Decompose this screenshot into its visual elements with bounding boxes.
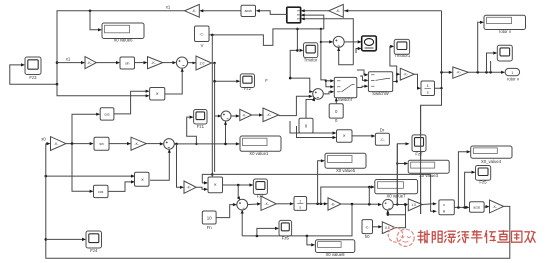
acos block2 (470, 202, 485, 212)
wire acos2 to gain G14 (484, 205, 489, 208)
svg-text:SwitchT: SwitchT (338, 97, 354, 102)
wire branch down vertical B x=215.2 (213, 63, 221, 172)
wire G9 out to sin2 with branch x=72 (66, 142, 94, 145)
svg-text:acos: acos (245, 9, 252, 13)
wire X1 out up to C4 bottom (150, 149, 171, 180)
gain G6 (263, 108, 279, 122)
wire V branch down into Tmotor scope (296, 28, 303, 52)
wire branch down to display X0 value6 (90, 11, 102, 32)
mux block (mirrored, inputs right) (287, 7, 301, 23)
wire G1 to sin (96, 61, 120, 64)
wire C3 bottom input from row3 line (224, 121, 227, 144)
wire 2.0 out up to Tmotor feed y=51 (212, 62, 216, 64)
switch SwitchW (368, 72, 392, 96)
product X1 (135, 172, 150, 186)
svg-text:Fz5: Fz5 (479, 179, 487, 184)
svg-text:-K-: -K- (192, 9, 197, 13)
svg-text:x1: x1 (166, 4, 171, 9)
wire branch x=320.9 down to sum C1 and switch area (320, 29, 335, 89)
svg-text:1: 1 (299, 199, 301, 203)
svg-text:1: 1 (511, 71, 513, 75)
scope Scope1 (dark bordered) (362, 36, 377, 51)
svg-text:Fn: Fn (207, 225, 213, 230)
svg-text:V: V (201, 43, 204, 48)
scope Fx1 (253, 179, 267, 199)
wire const0b2 up to C7 bottom (306, 98, 315, 119)
gain 2.0 (196, 56, 212, 70)
display X0 value5 (325, 153, 366, 173)
scope Tmotor (304, 43, 318, 63)
wire int1 node down-left rail to long vertical x=420.6 (421, 88, 442, 214)
mux xth block (439, 200, 454, 215)
wire V out with jog to mux in2 riser (209, 14, 324, 46)
wire feedback into gain G9 (46, 142, 51, 145)
scope Fz3 (25, 57, 41, 80)
const 10 (Fn) (202, 211, 216, 230)
gain L1 (left-pointing -K-) (185, 4, 200, 17)
wire sin to G2 (135, 61, 148, 64)
svg-text:h0: h0 (365, 234, 370, 239)
svg-text:-K-: -K- (336, 9, 341, 13)
svg-text:0.5: 0.5 (385, 226, 390, 230)
gain G5 (240, 109, 252, 120)
wire C3 out to gain G5 (231, 114, 240, 117)
wire X3 input stubs (290, 121, 337, 139)
gain G11 (184, 181, 196, 193)
svg-text:X0 value3: X0 value3 (419, 173, 439, 178)
wire branch down from y=187 into sum C6 left (368, 187, 370, 204)
wire cos2 out up into product X4 input1 (114, 90, 150, 114)
svg-text:Fz2: Fz2 (244, 86, 252, 91)
scope Fz4 (86, 231, 102, 253)
wire riser to scope Fz7 (396, 142, 409, 206)
wire mux out to acos (256, 9, 287, 14)
wire V branch rail down to sum C7 in1 (289, 50, 313, 93)
wire G7 out to integrator1 (414, 74, 421, 90)
wire G2 to sum C2 (163, 61, 177, 64)
svg-text:-C-: -C- (380, 138, 385, 142)
sin block2 (94, 137, 109, 150)
svg-text:-K-: -K- (54, 142, 59, 146)
wire gainL1 out left with junction to x=57 (56, 10, 185, 85)
sin block (120, 57, 135, 69)
wire G5 to gain G6 (252, 113, 263, 116)
wire long row end down into mux xth in2 (431, 174, 437, 213)
svg-text:-K-: -K- (242, 113, 247, 117)
watermark logo red circle (388, 228, 414, 247)
wire branch into sum C1 left (321, 40, 333, 43)
wire sin2 to gain G10 (109, 142, 131, 145)
goto tag Dr (375, 127, 389, 145)
wire branch to display X0 value8 (307, 236, 315, 247)
svg-text:-K-: -K- (331, 202, 336, 206)
svg-text:Fz3: Fz3 (29, 75, 37, 80)
wire cos out up to product X1 in2 (108, 180, 135, 191)
svg-text:-K-: -K- (267, 113, 272, 117)
svg-text:s: s (299, 205, 301, 209)
svg-text:rotor v: rotor v (499, 29, 512, 34)
wire C4 out to display X0 value1 with branch dots (174, 142, 240, 145)
wire node up to top line y=10.8 (441, 11, 443, 73)
wire int2 out to gain G13 with branch dots (307, 202, 328, 205)
svg-text:X0 value8: X0 value8 (325, 252, 345, 257)
gain L2 (left-pointing -K-) (329, 4, 344, 17)
wire X4 out up to sum C2 bottom (165, 68, 184, 94)
wire branch into display X0 value3 (397, 162, 408, 165)
wire G8 out to output oval rotor v (468, 71, 505, 74)
wire branch down into sum C5 top (237, 185, 240, 200)
gain G2 (148, 57, 163, 69)
wire G6 out up and to sum C7 in1 (279, 95, 313, 116)
wire long row y=174.4 with corner into X2 in1 (202, 174, 212, 184)
wire C6 out to gain 1.0 (393, 203, 408, 206)
svg-text:Fz1: Fz1 (197, 124, 205, 129)
wire stub into product X2 top (211, 174, 213, 177)
wire C1 bottom input from y=64.8 rail (337, 47, 353, 64)
scope Fz8 (top right) (497, 45, 512, 61)
sum C2 (176, 57, 187, 68)
gain G10 (131, 137, 146, 150)
wire vertical A x=212.4 down to long row y=174.4 (211, 35, 214, 176)
wire C5 bottom input from feedback rail (241, 210, 244, 236)
svg-text:×: × (214, 183, 217, 189)
wire branch to scope Fz4 (46, 238, 86, 241)
gain G13 (328, 198, 341, 210)
wire SwitchW in2 stub (360, 76, 368, 82)
scope Fz1 (194, 110, 207, 129)
scope Fz5 (476, 166, 491, 185)
svg-text:×: × (156, 91, 159, 97)
svg-text:Tmotor: Tmotor (304, 57, 318, 62)
svg-text:-K-: -K- (456, 71, 461, 75)
svg-text:-K-: -K- (403, 73, 408, 77)
svg-text:X0 value1: X0 value1 (249, 151, 269, 156)
svg-text:X0 value5: X0 value5 (336, 168, 356, 173)
wire x=57 branch to gain G1 row2 (57, 56, 85, 64)
wire Fn out to sum C5 left (216, 203, 237, 218)
scope Fz7 (412, 135, 426, 157)
wire X3 out to goto Dr (352, 134, 375, 137)
svg-text:x1: x1 (66, 56, 71, 61)
wire C6 bottom input from 0.5 gain rail (386, 210, 405, 216)
gain 1.0 (408, 199, 422, 211)
wire int1 out up to node and gain G8 (435, 71, 453, 90)
gain G12 (261, 196, 276, 210)
svg-text:-K-: -K- (493, 205, 498, 209)
gain G1 row2 (85, 57, 96, 69)
switch SwitchT (334, 77, 357, 102)
watermark text (red CJK glyphs drawn as strokes) (418, 231, 535, 243)
gain G9 (51, 137, 66, 151)
cos block2 (100, 108, 114, 120)
gain 0.5 (382, 222, 395, 234)
wire h0 to gain 0.5 (373, 225, 383, 228)
svg-text:Fz7: Fz7 (415, 152, 423, 157)
sum C6 (383, 199, 394, 210)
wire top chain y=10.8 from integrator node to acos chain (344, 9, 441, 12)
wire branch up to display X0 value4 (458, 150, 470, 207)
sum C4 (164, 139, 175, 150)
wire cos2 feed from x0 branch riser (72, 113, 100, 144)
const 0 block1 (329, 104, 343, 123)
wire C1 out to Scope1 (344, 40, 362, 43)
svg-text:cos: cos (104, 113, 110, 117)
wire X2 out to scope Fx1 (223, 183, 254, 186)
cos block (94, 185, 109, 197)
display X0 value1 (240, 136, 281, 156)
wire C5 out to gain G12 (248, 202, 261, 205)
wire branch up to display X0 value5 (318, 159, 325, 204)
product X3 (337, 130, 353, 142)
wire long row y=174.4 to right end x=430.6 (212, 173, 430, 175)
scope Fz2 (240, 74, 254, 91)
sum C1 (333, 36, 344, 47)
wire corner to Fz3 scope (10, 63, 59, 85)
wire rail up to mux in3 (301, 17, 354, 65)
svg-text:1.0: 1.0 (411, 203, 416, 207)
wire G13 out to sum C6 with feedback branch (341, 203, 382, 206)
wire branch down to gain G11 (177, 144, 185, 189)
wire Scope1 second input stub (356, 47, 362, 53)
display X0 value3 (408, 160, 449, 178)
svg-text:F: F (265, 78, 268, 83)
svg-text:-K-: -K- (151, 61, 156, 65)
wire branch into SwitchT input1 (326, 79, 334, 82)
svg-text:acos: acos (473, 205, 480, 209)
svg-text:x: x (443, 202, 445, 207)
wire SwitchT out to SwitchW (357, 85, 369, 88)
wire branch up to scope Fz6 (257, 227, 279, 236)
gain G8 (453, 67, 469, 78)
svg-text:cos: cos (98, 190, 104, 194)
display X0 value6 (102, 23, 144, 43)
svg-text:Fz6: Fz6 (282, 236, 290, 241)
const V (195, 26, 210, 48)
wire G12 to integrator2 (276, 202, 294, 205)
svg-text:sin: sin (99, 142, 103, 146)
sum C7 (313, 89, 324, 100)
svg-text:-C-: -C- (365, 226, 369, 230)
svg-text:sin: sin (125, 61, 129, 65)
const h0 (362, 220, 373, 240)
integrator 1/s block1 (421, 81, 435, 96)
wire branch x=72 down to cos (72, 144, 94, 193)
wire C7 out to SwitchT (323, 90, 334, 94)
svg-text:-K-: -K- (135, 142, 140, 146)
product X2 (208, 177, 223, 193)
display X0 value7 (375, 180, 418, 199)
wire acos out to gain L1 (199, 9, 241, 12)
svg-text:×: × (343, 134, 346, 140)
wire big feedback loop bottom (45, 144, 510, 259)
wire branch up to scope Fz5 (465, 171, 476, 208)
svg-text:-K-: -K- (265, 202, 270, 206)
svg-text:X0 value7: X0 value7 (386, 193, 406, 198)
svg-text:rotor v: rotor v (507, 77, 520, 82)
wire x=57 down then right into product X4 input2 (57, 84, 150, 97)
scope Fz6 (279, 220, 292, 240)
svg-text:Fz4: Fz4 (90, 248, 98, 253)
wire const0 up into SwitchT bottom (335, 98, 338, 104)
sum C5 (237, 199, 248, 210)
wire gainL2 out to mux in1 (301, 9, 329, 12)
display X0 value8 (315, 240, 354, 257)
svg-text:10: 10 (207, 216, 212, 221)
svg-text:s: s (427, 90, 429, 95)
wire feedback branch into product X1 in1 (45, 175, 136, 178)
product X4 (150, 88, 165, 101)
wire G10 to sum C4 (146, 142, 164, 145)
svg-text:-C-: -C- (199, 33, 204, 37)
svg-text:X0_value4: X0_value4 (481, 159, 502, 164)
wire branch to scope Fz2 (215, 80, 241, 83)
gain G7 (400, 68, 414, 80)
wire xth out to acos2 with branch dots (454, 206, 469, 209)
svg-text:Tmotor1: Tmotor1 (394, 53, 411, 58)
svg-text:2.0: 2.0 (200, 61, 205, 65)
wire C2 to gain 2.0 (188, 62, 196, 65)
display X0 value4 (471, 146, 512, 164)
output port oval rotor v (505, 68, 520, 81)
svg-text:SwitchW: SwitchW (372, 91, 390, 96)
wire overlay long vertical x=420.6 crossing displays (420, 105, 422, 214)
wire SwitchW out jog up to Tmotor1 (390, 45, 397, 82)
wire branch up to scope Fz8 (487, 51, 498, 72)
acos block (241, 5, 256, 16)
wire SwitchW in1 stub (357, 70, 368, 76)
wire overlay riser x=397.3 crossing display X0 value7 (396, 144, 398, 205)
const 0 block2 (299, 118, 313, 133)
svg-text:Dr: Dr (380, 127, 385, 132)
svg-text:x0: x0 (41, 136, 46, 141)
svg-text:×: × (141, 178, 144, 184)
integrator 1/s block2 (294, 197, 307, 211)
svg-text:-K-: -K- (187, 186, 192, 190)
display rotor v (top right) (484, 15, 526, 34)
wire branch up to display rotor v (478, 21, 484, 73)
scope Tmotor1 (394, 39, 411, 58)
gain G14 (490, 200, 504, 213)
wire feedback down rail y=235.9 back to C5 (242, 204, 352, 237)
svg-text:-K-: -K- (87, 61, 92, 65)
wire 0.5 out up to C6 rail (395, 203, 407, 228)
wire stub riser to scope corner (490, 61, 492, 72)
wire Fz1 feed from row3 branch (187, 116, 198, 146)
sum C3 (221, 111, 231, 121)
wire G11 out to product X2 in2 (196, 187, 208, 191)
wire 1.0 out to mux xth in1 (422, 202, 437, 205)
wire SwitchW out to gain G7 (393, 73, 401, 83)
wire branch up to display X0 value7 line y=187 (321, 185, 375, 203)
svg-text:X0 value6: X0 value6 (113, 38, 133, 43)
